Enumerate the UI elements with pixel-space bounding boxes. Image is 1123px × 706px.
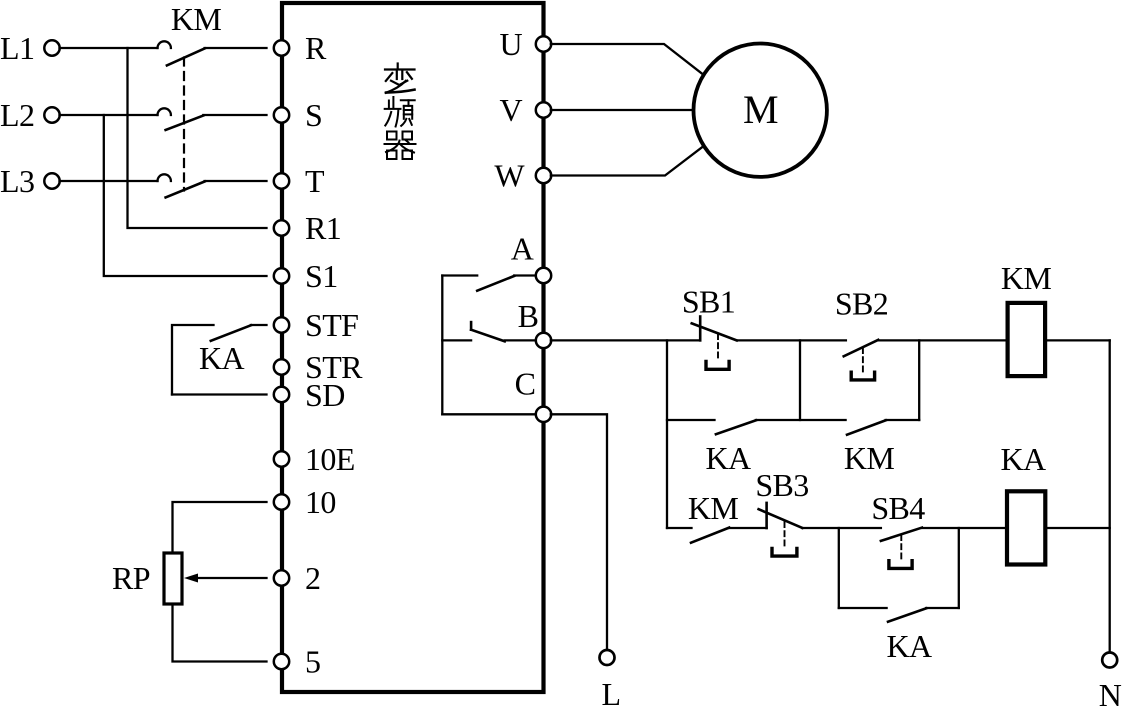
terminal L xyxy=(600,650,621,706)
terminal A xyxy=(536,268,551,283)
terminal 10 xyxy=(274,494,289,509)
wire KM contact to x919 xyxy=(886,419,920,421)
label RP xyxy=(112,560,150,596)
pin label S xyxy=(305,97,322,133)
label KA (coil) xyxy=(1000,441,1046,477)
svg-text:KM: KM xyxy=(1001,260,1052,296)
N rail vertical wire xyxy=(1109,340,1111,652)
svg-text:5: 5 xyxy=(305,644,320,680)
svg-text:SB2: SB2 xyxy=(835,286,888,322)
svg-text:T: T xyxy=(305,163,325,199)
wire B to control circuit xyxy=(551,339,700,341)
wire KA contact to x959 xyxy=(926,607,959,609)
contactor KM main contact pole 2 xyxy=(158,108,267,130)
label KM (interlock contact) xyxy=(688,490,739,526)
label KM (parallel SB2) xyxy=(844,440,895,476)
label KM (coil) xyxy=(1001,260,1052,296)
svg-text:L3: L3 xyxy=(0,163,34,199)
pushbutton SB1 (NC stop) xyxy=(692,317,737,370)
svg-text:2: 2 xyxy=(305,560,320,596)
terminal R xyxy=(274,40,289,55)
wire C to L xyxy=(551,414,607,650)
relay output contact block A-B-C xyxy=(442,276,535,415)
svg-text:10E: 10E xyxy=(305,441,355,477)
svg-text:S1: S1 xyxy=(305,258,338,294)
wire L2 branch to S1 xyxy=(104,115,267,276)
pin label C xyxy=(515,366,536,402)
terminal R1 xyxy=(274,220,289,235)
label SB3 xyxy=(755,467,808,503)
wire SB4 to KA coil xyxy=(922,527,1007,529)
label KA (STF contact) xyxy=(199,340,245,376)
wire SB2 to KM coil xyxy=(878,339,1007,341)
terminal STF xyxy=(274,317,289,332)
pin label T xyxy=(305,163,325,199)
svg-text:SB1: SB1 xyxy=(682,284,735,320)
potentiometer RP wiring top xyxy=(173,502,267,553)
terminal W xyxy=(536,168,551,183)
inverter box U0 (变频器) xyxy=(282,3,544,692)
terminal 2 xyxy=(274,570,289,585)
pin label B xyxy=(518,298,539,334)
pin label V xyxy=(499,92,522,128)
contactor KM main contact pole 1 xyxy=(158,41,267,65)
wire junction branch x959 down xyxy=(958,528,960,608)
svg-text:SB4: SB4 xyxy=(871,490,925,526)
wire junction branch x839 down xyxy=(838,528,840,608)
svg-text:R: R xyxy=(305,30,327,66)
terminal S1 xyxy=(274,268,289,283)
svg-text:KA: KA xyxy=(886,628,932,664)
svg-text:STF: STF xyxy=(305,307,358,343)
relay contact KA (parallel SB4) xyxy=(888,608,926,621)
svg-text:N: N xyxy=(1099,677,1122,706)
wire junction branch x800 down xyxy=(799,340,801,420)
terminal N xyxy=(1099,653,1122,706)
terminal C xyxy=(536,407,551,422)
svg-text:U: U xyxy=(499,26,522,62)
wire SB1 to SB2 xyxy=(737,339,846,341)
pushbutton SB4 (NO) xyxy=(881,528,922,569)
svg-text:L: L xyxy=(602,676,621,706)
pin label 2 xyxy=(305,560,320,596)
pin label 10E xyxy=(305,441,355,477)
wire U to motor xyxy=(551,44,702,74)
contactor KM main contact pole 3 xyxy=(158,174,267,197)
svg-text:RP: RP xyxy=(112,560,150,596)
svg-text:KA: KA xyxy=(1000,441,1046,477)
pin label R1 xyxy=(305,210,341,246)
svg-text:W: W xyxy=(494,158,525,194)
terminal U xyxy=(536,36,551,51)
terminal 5 xyxy=(274,654,289,669)
pushbutton SB2 (NO start) xyxy=(844,340,879,380)
pin label SD xyxy=(305,377,345,413)
potentiometer RP wiring bottom xyxy=(173,604,267,662)
parallel branch wire y608 xyxy=(839,607,887,609)
potentiometer RP wiper arrow xyxy=(184,574,267,583)
svg-text:R1: R1 xyxy=(305,210,341,246)
label KA (parallel SB4) xyxy=(886,628,932,664)
svg-text:10: 10 xyxy=(305,484,336,520)
pushbutton SB3 (NC) xyxy=(759,503,803,556)
svg-text:L1: L1 xyxy=(0,30,34,66)
svg-text:M: M xyxy=(743,87,778,132)
wire W to motor xyxy=(551,147,703,176)
potentiometer RP body xyxy=(164,553,182,604)
svg-text:KA: KA xyxy=(199,340,245,376)
pin label STF xyxy=(305,307,358,343)
svg-text:V: V xyxy=(499,92,522,128)
pin label W xyxy=(494,158,525,194)
KM linkage dashed line xyxy=(183,58,185,191)
wire L1 branch to R1 xyxy=(128,48,267,228)
terminal 10E xyxy=(274,451,289,466)
wire KA to KM contact xyxy=(756,419,846,421)
label SB1 xyxy=(682,284,735,320)
wire V to motor xyxy=(551,109,694,111)
wire KA coil to N rail xyxy=(1045,527,1109,529)
svg-text:SD: SD xyxy=(305,377,345,413)
pin label STR xyxy=(305,349,363,385)
parallel branch wire y420 xyxy=(667,419,715,421)
terminal B xyxy=(536,333,551,348)
wire L1 to KM contact xyxy=(60,47,158,49)
pin label A xyxy=(511,231,534,267)
contactor aux contact KM (parallel SB2) xyxy=(847,420,886,434)
label 变 (char 1 of 变频器) xyxy=(385,64,415,93)
label SB4 xyxy=(871,490,925,526)
svg-text:S: S xyxy=(305,97,322,133)
svg-text:KA: KA xyxy=(705,440,751,476)
pin label U xyxy=(499,26,522,62)
terminal T xyxy=(274,173,289,188)
label KM (main contact) xyxy=(171,1,222,37)
branch wire y528 left xyxy=(667,527,692,529)
label SB2 xyxy=(835,286,888,322)
terminal STR xyxy=(274,359,289,374)
svg-text:L2: L2 xyxy=(0,97,34,133)
pin label S1 xyxy=(305,258,338,294)
svg-text:KM: KM xyxy=(688,490,739,526)
relay contact KA (parallel SB1) xyxy=(716,420,756,434)
terminal V xyxy=(536,102,551,117)
svg-text:KM: KM xyxy=(844,440,895,476)
coil KA xyxy=(1007,491,1045,564)
terminal L2 xyxy=(0,97,60,133)
label KA (parallel SB1) xyxy=(705,440,751,476)
svg-text:KM: KM xyxy=(171,1,222,37)
terminal L1 xyxy=(0,30,60,66)
terminal L3 xyxy=(0,163,60,199)
svg-text:B: B xyxy=(518,298,539,334)
wire SB3 to SB4 xyxy=(802,527,881,529)
relay contact KA (STF-SD) xyxy=(172,325,267,395)
label 器 (char 3 of 变频器) xyxy=(385,132,416,160)
terminal S xyxy=(274,107,289,122)
motor M1 xyxy=(694,44,827,177)
contactor aux contact KM (interlock) xyxy=(691,528,767,543)
coil KM xyxy=(1008,303,1046,376)
wire junction branch x667 down xyxy=(666,340,668,528)
wire junction branch x919 down xyxy=(918,340,920,420)
svg-text:A: A xyxy=(511,231,534,267)
terminal SD xyxy=(274,387,289,402)
svg-text:SB3: SB3 xyxy=(755,467,808,503)
wire L3 to KM contact xyxy=(60,180,158,182)
pin label 5 xyxy=(305,644,320,680)
label 频 (char 2 of 变频器) xyxy=(385,97,415,127)
wire L2 to KM contact xyxy=(60,114,158,116)
svg-text:C: C xyxy=(515,366,536,402)
wire KM coil to N rail xyxy=(1045,339,1110,341)
pin label R xyxy=(305,30,327,66)
pin label 10 xyxy=(305,484,336,520)
